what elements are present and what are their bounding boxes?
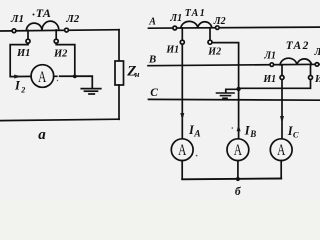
stub ammeter PA3 to bus	[237, 161, 239, 179]
terminal Л1 (diagram a)	[12, 29, 16, 33]
current transformer TA2 primary winding arcs	[280, 58, 312, 65]
svg-text:И2: И2	[53, 49, 68, 60]
wire И2 TA2 to common junction	[239, 80, 311, 89]
ammeter PA1 (diagram a)	[31, 65, 54, 88]
stub to secondary terminal И2 (diagram a)	[55, 30, 57, 39]
svg-text:С: С	[150, 87, 158, 99]
terminal И1 (TA1)	[180, 40, 184, 44]
stub ammeter PA2 to bus	[181, 161, 183, 179]
stub to terminal И2 (TA2)	[310, 65, 312, 76]
svg-text:н: н	[135, 69, 140, 79]
wire common junction down to ammeter PA3	[238, 89, 240, 139]
svg-text:И2: И2	[207, 46, 221, 57]
wire: bottom bus of diagram b	[182, 178, 281, 181]
svg-text:ТА: ТА	[36, 6, 52, 20]
terminal Л1 (TA2)	[270, 63, 274, 67]
terminal И2 (TA1)	[208, 40, 212, 44]
svg-text:ТА1: ТА1	[185, 8, 206, 19]
svg-text:Л1: Л1	[10, 13, 24, 25]
terminal Л2 (diagram a)	[65, 28, 69, 32]
arrow IC (down)	[280, 116, 284, 124]
terminal Л2 (TA2, clipped at edge)	[315, 63, 319, 67]
svg-text:И1: И1	[16, 48, 30, 59]
phase line B	[148, 64, 320, 65]
terminal И2 (TA2)	[309, 76, 313, 80]
wire И2 to junction	[56, 43, 75, 76]
wire: bottom return line of diagram a	[0, 119, 119, 120]
scan speck near ammeter PA1	[57, 80, 58, 81]
junction dot (common point, diagram b)	[236, 87, 240, 91]
terminal И1 (diagram a)	[26, 39, 30, 43]
svg-text:И1: И1	[262, 74, 276, 85]
stub to terminal И1 (TA1)	[181, 28, 183, 40]
scan speck right of ammeter PA2	[196, 155, 198, 157]
ground (diagram b)	[217, 93, 235, 98]
ground (diagram a)	[81, 89, 101, 94]
current transformer TA primary winding arcs	[26, 21, 58, 30]
stub to terminal И1 (TA2)	[281, 65, 283, 76]
ammeter PA4 (IC)	[270, 139, 292, 161]
svg-text:С: С	[293, 130, 299, 140]
svg-text:Л1: Л1	[169, 13, 182, 24]
svg-text:А: А	[38, 69, 47, 86]
svg-text:ТА2: ТА2	[286, 40, 310, 52]
svg-text:В: В	[148, 54, 156, 66]
stub ammeter PA4 to bus	[280, 161, 282, 179]
ammeter PA2 (IA)	[171, 139, 193, 161]
svg-text:Л2: Л2	[65, 13, 80, 25]
svg-text:Л1: Л1	[263, 51, 276, 62]
wire И2 TA1 to common junction	[212, 43, 239, 89]
junction dot on bus	[236, 177, 240, 181]
arrow I2 on wire	[14, 75, 21, 79]
wire ammeter PA1 to ground bend	[54, 76, 93, 88]
stub to terminal И2 (TA1)	[209, 28, 211, 40]
arrow IB (up)	[237, 125, 241, 132]
svg-text:И1: И1	[165, 45, 179, 56]
arrow IA (down)	[180, 113, 184, 121]
junction dot (secondary common, diagram a)	[73, 75, 77, 79]
svg-text:А: А	[277, 142, 286, 159]
phase line C	[149, 98, 320, 101]
svg-text:А: А	[234, 142, 243, 159]
svg-text:Л2: Л2	[213, 16, 226, 27]
svg-text:В: В	[249, 129, 256, 139]
scan speck near IB	[232, 127, 234, 129]
phase line A	[149, 27, 320, 28]
terminal И2 (diagram a)	[54, 39, 58, 43]
wire: primary line of diagram a	[0, 30, 119, 31]
svg-text:А: А	[148, 16, 156, 27]
stray dot before TA label	[33, 14, 35, 16]
svg-text:И2: И2	[314, 74, 320, 85]
svg-text:2: 2	[20, 85, 25, 94]
wire И1 TA2 down to ammeter PA4	[281, 80, 283, 140]
current transformer TA1 primary winding arcs	[181, 21, 212, 28]
ammeter PA3 (IB)	[227, 139, 249, 161]
stub to secondary terminal И1 (diagram a)	[27, 30, 29, 39]
ground stub (diagram b)	[226, 89, 239, 92]
svg-text:а: а	[38, 127, 46, 143]
svg-text:Л2: Л2	[314, 47, 320, 58]
terminal Л2 (TA1)	[216, 26, 220, 30]
svg-text:А: А	[178, 142, 187, 159]
load resistor Zн body	[115, 61, 124, 85]
load resistor Zн stub top	[118, 30, 120, 61]
wire И1 TA1 down to ammeter PA2	[181, 44, 183, 139]
terminal Л1 (TA1)	[173, 26, 177, 30]
svg-text:А: А	[193, 130, 200, 140]
terminal И1 (TA2)	[280, 76, 284, 80]
load resistor Zн stub bottom	[118, 85, 120, 119]
wire И1 to ammeter PA1	[10, 43, 31, 76]
